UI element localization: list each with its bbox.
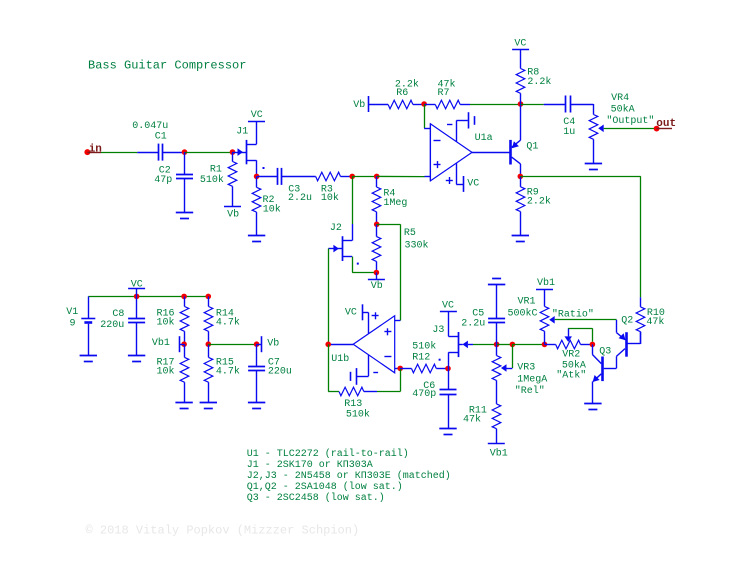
svg-text:R5: R5 [404,228,416,239]
svg-text:R1: R1 [210,165,222,176]
svg-text:10k: 10k [157,366,175,378]
svg-text:C1: C1 [155,132,167,143]
svg-text:Q3 - 2SC2458 (low sat.): Q3 - 2SC2458 (low sat.) [247,492,385,504]
svg-text:10k: 10k [321,192,339,204]
svg-text:VR4: VR4 [611,93,629,104]
svg-text:U1a: U1a [475,133,493,144]
svg-text:50kA: 50kA [611,104,635,116]
svg-text:330k: 330k [405,240,429,252]
svg-text:Q2: Q2 [621,316,633,327]
svg-text:R13: R13 [344,399,362,410]
svg-text:2.2u: 2.2u [461,319,485,330]
svg-text:Q3: Q3 [599,347,611,358]
svg-text:2.2k: 2.2k [527,196,551,208]
svg-text:Vb1: Vb1 [490,447,508,459]
svg-text:510k: 510k [200,174,224,186]
svg-text:"Atk": "Atk" [556,369,586,381]
svg-text:Vb1: Vb1 [152,337,170,349]
svg-text:47k: 47k [463,414,481,426]
svg-text:J1: J1 [236,127,248,138]
svg-text:C8: C8 [112,309,124,320]
svg-text:VC: VC [467,179,479,190]
svg-text:VC: VC [251,110,263,121]
svg-text:VC: VC [345,308,357,319]
svg-text:1u: 1u [563,127,575,138]
svg-text:4.7k: 4.7k [216,317,240,329]
svg-text:"Ratio": "Ratio" [552,308,594,320]
svg-text:VC: VC [131,279,143,290]
svg-text:0.047u: 0.047u [132,121,168,132]
svg-text:VR3: VR3 [517,363,535,374]
svg-text:9: 9 [70,318,76,329]
svg-text:10k: 10k [263,203,281,215]
svg-text:Vb: Vb [267,338,279,350]
svg-text:VR1: VR1 [518,296,536,307]
svg-text:R6: R6 [396,88,408,99]
svg-text:"Rel": "Rel" [515,385,545,397]
svg-text:47k: 47k [646,316,664,328]
svg-text:out: out [656,118,676,130]
svg-text:J3: J3 [432,325,444,336]
svg-text:© 2018 Vitaly Popkov (Mizzzer: © 2018 Vitaly Popkov (Mizzzer Schpion) [86,524,360,538]
svg-text:J2,J3 - 2N5458 or КП303Е (matc: J2,J3 - 2N5458 or КП303Е (matched) [247,470,451,482]
svg-text:R12: R12 [412,353,430,364]
svg-text:Vb1: Vb1 [537,277,555,289]
svg-text:10k: 10k [157,317,175,329]
svg-text:220u: 220u [268,367,292,378]
svg-text:2.2k: 2.2k [527,76,551,88]
svg-text:220u: 220u [100,320,124,331]
svg-text:"Output": "Output" [606,115,654,127]
svg-text:Q1: Q1 [526,142,538,153]
svg-text:Bass Guitar Compressor: Bass Guitar Compressor [88,59,246,73]
svg-text:4.7k: 4.7k [216,366,240,378]
svg-text:2.2u: 2.2u [288,193,312,204]
svg-text:510k: 510k [412,341,436,353]
svg-text:1MegA: 1MegA [517,374,547,385]
svg-text:in: in [89,144,102,156]
svg-text:VC: VC [514,39,526,50]
svg-text:VR2: VR2 [562,350,580,361]
svg-text:470p: 470p [412,389,436,400]
svg-text:500kC: 500kC [508,307,538,319]
svg-text:510k: 510k [346,409,370,421]
svg-text:J2: J2 [330,223,342,234]
svg-text:47p: 47p [154,175,172,186]
svg-text:J1 - 2SK170 or КП303А: J1 - 2SK170 or КП303А [247,460,373,471]
svg-text:U1 - TLC2272 (rail-to-rail): U1 - TLC2272 (rail-to-rail) [247,448,409,460]
svg-text:Vb: Vb [353,99,365,111]
svg-text:VC: VC [442,301,454,312]
svg-text:R7: R7 [438,88,450,99]
svg-text:U1b: U1b [331,353,349,365]
svg-text:Q1,Q2 - 2SA1048 (low sat.): Q1,Q2 - 2SA1048 (low sat.) [247,481,403,493]
svg-text:V1: V1 [66,307,78,318]
svg-text:Vb: Vb [227,208,239,220]
svg-text:Vb: Vb [371,280,383,292]
svg-text:1Meg: 1Meg [383,198,407,209]
